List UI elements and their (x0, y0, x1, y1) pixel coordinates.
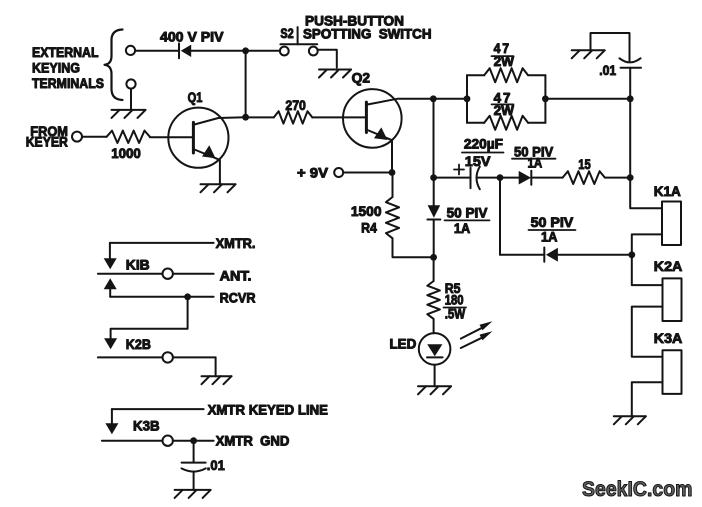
svg-text:1A: 1A (541, 230, 558, 245)
diode 50 PIV 1A (points right) (519, 171, 531, 185)
node 47 network left (464, 95, 471, 102)
wire XMTR line (110, 242, 214, 244)
wire K3A bottom to ground (632, 382, 663, 416)
brace for external keying terminals (105, 30, 123, 101)
wire ground to cap (591, 33, 630, 61)
wire node down to R5 (433, 257, 435, 281)
wire S2 right contact to ground (318, 50, 337, 68)
resistor 270 (274, 111, 313, 123)
transistor Q2 collector (367, 99, 433, 105)
svg-text:K2B: K2B (126, 337, 151, 352)
relay coil K2A box (663, 278, 682, 321)
svg-text:15: 15 (578, 157, 591, 172)
svg-text:K3B: K3B (133, 419, 160, 434)
wire node to 50PIV diode (500, 177, 519, 179)
wire junction down to Q1 collector node (245, 51, 247, 117)
node Q2 collector bus junction (430, 95, 437, 102)
node bus 15 ohm junction (627, 174, 634, 181)
wire bottom terminal to ground (130, 89, 132, 110)
wire K1B arrow down to RCVR (109, 288, 111, 297)
resistor R4 1500 (386, 197, 399, 238)
wire K2B right down to ground (215, 357, 217, 376)
K2B contact circle (163, 352, 173, 362)
ground (top right) (572, 49, 605, 51)
wire R4 bottom to middle bus node (393, 238, 434, 257)
svg-text:SeekIC.com: SeekIC.com (582, 478, 693, 501)
wire cap to ground (193, 472, 195, 490)
svg-text:.01: .01 (599, 63, 616, 78)
ground (Q1 emitter) (201, 183, 236, 185)
transistor Q1 circle (168, 108, 228, 168)
wire diode to S2 left contact (191, 50, 280, 52)
wire diode to resistor 15 (531, 177, 562, 179)
wire node to resistor 270 (246, 116, 274, 118)
K2B armature line left (98, 356, 163, 358)
transistor Q1 collector (194, 117, 245, 124)
transistor Q2 emitter (367, 130, 392, 173)
wire XMTR KEYED LINE (112, 408, 204, 410)
svg-text:2W: 2W (494, 103, 515, 118)
wire cap to bus node (629, 68, 631, 99)
wire collector node to 47 network (433, 98, 467, 100)
wire 47 network to right bus (545, 98, 630, 100)
wire cap node down to diode (433, 178, 435, 206)
svg-text:2W: 2W (494, 54, 515, 69)
node right bus top junction (627, 95, 634, 102)
svg-text:S2: S2 (280, 26, 293, 41)
svg-text:XMTR.: XMTR. (216, 236, 256, 251)
wire resistor 15 to bus (605, 177, 630, 179)
LED light arrow 2 (461, 338, 482, 348)
ground (relay common) (614, 415, 646, 417)
LED circle (419, 333, 451, 365)
ground (K2B) (202, 375, 232, 377)
switch S2 bar and plunger (280, 43, 317, 45)
node diode branch junction (497, 174, 504, 181)
wire RCVR node down-left to K2B (111, 297, 188, 340)
resistor 47 2W top branch (467, 74, 484, 76)
svg-text:TERMINALS: TERMINALS (32, 76, 104, 91)
resistor 1000 (107, 131, 150, 143)
svg-text:RCVR: RCVR (220, 291, 256, 306)
svg-text:.01: .01 (207, 458, 225, 473)
svg-text:50 PIV: 50 PIV (447, 206, 488, 221)
wire 220uF to diode node (477, 177, 500, 179)
47 network right vertical (544, 75, 546, 123)
switch S2 push-button contacts (280, 47, 289, 56)
diode 50 PIV 1A (points left) (543, 248, 545, 262)
svg-text:.5W: .5W (445, 307, 466, 322)
LED diode symbol (427, 344, 442, 356)
node Q2 emitter junction (389, 169, 396, 176)
relay coil K3A box (663, 350, 682, 394)
svg-text:KEYER: KEYER (26, 135, 68, 150)
wire diode node down (499, 178, 501, 255)
wire collector node down to cap node (433, 99, 435, 178)
wire cap node to 220uF (434, 177, 471, 179)
wire XMTR down to K1B arrow (109, 243, 111, 260)
svg-text:EXTERNAL: EXTERNAL (32, 45, 99, 60)
K2B arrow (down) (104, 338, 117, 349)
wire emitter node down to R4 (392, 173, 394, 198)
wire relay node to K2A top (632, 255, 663, 285)
ground (K3B cap) (175, 489, 211, 491)
svg-text:K2A: K2A (654, 259, 683, 274)
capacitor .01 (K3B) (182, 462, 206, 464)
transistor Q2 emitter arrow (374, 127, 388, 140)
47 network left vertical (466, 75, 468, 123)
K1B armature line left (98, 273, 163, 275)
svg-text:SPOTTING SWITCH: SPOTTING SWITCH (303, 26, 432, 41)
svg-text:180: 180 (445, 292, 464, 307)
wire bus to K1A top (630, 178, 662, 209)
transistor Q1 emitter (194, 150, 220, 185)
resistor 15 (563, 171, 605, 184)
svg-text:KEYING: KEYING (32, 60, 80, 75)
capacitor .01 (top right) (620, 58, 641, 62)
K1B bottom arrow (up) (104, 278, 117, 289)
wire R5 to LED (433, 319, 435, 333)
svg-text:KIB: KIB (126, 258, 150, 273)
svg-text:R4: R4 (361, 220, 377, 235)
K3B contact circle (163, 436, 173, 446)
svg-text:LED: LED (390, 337, 417, 352)
plus sign 220uF (454, 169, 464, 171)
wire down to K3B arrow (111, 409, 113, 424)
resistor 47 2W bottom branch (467, 122, 484, 124)
LED light arrow 1 (461, 328, 482, 339)
capacitor 220uF 15V (470, 168, 472, 189)
terminal circle FROM KEYER (72, 132, 82, 142)
node 220uF cap left junction (430, 174, 437, 181)
svg-text:1A: 1A (454, 221, 471, 236)
K3B armature line right (173, 440, 214, 442)
svg-text:Q1: Q1 (188, 90, 203, 105)
ground (below bottom external terminal) (112, 109, 146, 111)
node junction top wire (242, 47, 249, 54)
svg-text:XMTR KEYED LINE: XMTR KEYED LINE (208, 403, 328, 418)
diode CR1 400 V PIV (points left) (178, 43, 180, 58)
wire RCVR line (110, 296, 213, 298)
relay coil K1A box (662, 202, 681, 246)
transistor Q2 base bar (365, 102, 368, 132)
terminal circle +9V (334, 168, 343, 177)
node Q1 collector junction (242, 114, 249, 121)
svg-text:400 V PIV: 400 V PIV (160, 29, 224, 44)
svg-text:K3A: K3A (654, 331, 683, 346)
node 47 network right (542, 95, 549, 102)
node XMTR GND junction (190, 437, 197, 444)
svg-text:XMTR GND: XMTR GND (216, 434, 290, 449)
svg-text:1500: 1500 (351, 204, 382, 219)
node R4/R5 junction (430, 254, 437, 261)
K3B armature line left (102, 440, 163, 442)
K1B top arrow (down) (104, 258, 117, 269)
node RCVR junction (184, 293, 191, 300)
K3B arrow (down) (105, 423, 118, 434)
svg-text:15V: 15V (465, 154, 491, 169)
wire diode to R5 node (433, 220, 435, 258)
wire resistor 270 to Q2 base (312, 116, 366, 118)
ground (LED cathode) (418, 385, 451, 387)
svg-text:50 PIV: 50 PIV (531, 215, 574, 230)
node relay bus junction (628, 251, 635, 258)
svg-text:+ 9V: + 9V (297, 165, 328, 180)
wire keyer terminal to resistor (82, 136, 107, 138)
K1B armature line right (173, 273, 214, 275)
svg-text:ANT.: ANT. (220, 269, 252, 284)
wire K2A bottom to K3A top (632, 307, 663, 357)
transistor Q1 base bar (192, 122, 195, 153)
K1B contact circle (163, 269, 173, 279)
transistor Q2 circle (343, 89, 402, 148)
wire resistor to Q1 base (150, 136, 194, 138)
wire node down to .01 cap (193, 441, 195, 463)
wire +9V to emitter node (343, 172, 392, 174)
svg-text:K1A: K1A (654, 184, 681, 199)
transistor Q1 emitter arrow (202, 145, 216, 158)
wire bus top node down to 15 node (629, 99, 631, 178)
svg-text:270: 270 (285, 98, 306, 113)
wire top terminal to diode (135, 50, 179, 52)
svg-text:1000: 1000 (111, 146, 141, 161)
diode 50 PIV 1A (points down) (428, 205, 441, 218)
wire K1A bottom to relay bus node (632, 234, 662, 254)
svg-text:220µF: 220µF (464, 137, 503, 152)
resistor R5 180 .5W (427, 281, 440, 319)
K2B armature line right (173, 356, 216, 358)
terminal circle top (external keying) (126, 46, 135, 55)
wire LED to ground (434, 365, 436, 387)
svg-text:Q2: Q2 (352, 71, 370, 86)
svg-text:1A: 1A (528, 155, 543, 170)
ground (S2 right contact) (319, 69, 351, 71)
terminal circle bottom (external keying) (126, 79, 135, 88)
wire lower branch left segment (500, 254, 544, 256)
wire lower branch right segment (558, 254, 632, 256)
